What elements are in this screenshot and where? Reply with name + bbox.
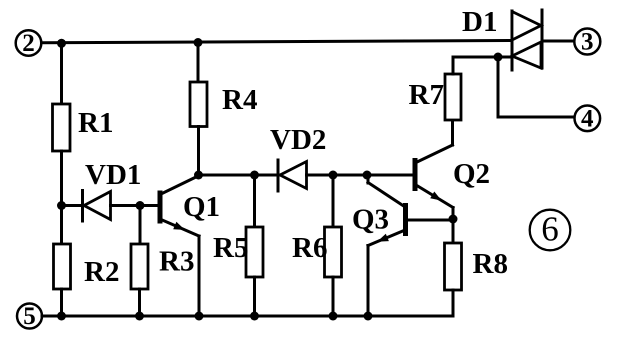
svg-text:R3: R3 — [159, 246, 194, 278]
wire Q2 emitter down — [452, 208, 455, 220]
node bottom bus / Q1 emitter — [195, 312, 204, 321]
svg-text:D1: D1 — [462, 6, 497, 38]
node bottom bus / R2 — [57, 312, 66, 321]
wire R7 top to D1 node — [453, 57, 511, 74]
figure number 6 — [530, 210, 571, 251]
node VD1 / R3 / Q1 base — [136, 201, 145, 210]
node mid rail / R5 — [250, 171, 259, 180]
node R7 / D1 / terminal4 — [494, 53, 503, 62]
wire D1 to terminal 3 — [543, 40, 575, 43]
node mid rail / R6 — [329, 171, 338, 180]
wire Q2 collector to R7 — [451, 120, 454, 145]
diode VD2 — [270, 124, 326, 191]
svg-text:R4: R4 — [222, 84, 257, 116]
wire node to R3 — [139, 206, 142, 245]
wire R6 top — [332, 175, 335, 227]
wire bus to R4 — [197, 43, 200, 83]
svg-text:6: 6 — [541, 210, 559, 249]
terminal 3 — [574, 29, 600, 56]
transistor Q3 — [352, 175, 406, 246]
svg-text:Q1: Q1 — [183, 191, 220, 223]
resistor R6 — [292, 227, 342, 277]
wire node to R8 — [452, 219, 455, 243]
svg-text:Q3: Q3 — [352, 204, 389, 236]
node bottom bus / R3 — [135, 312, 144, 321]
svg-text:VD1: VD1 — [85, 159, 141, 191]
wire R3 to bottom bus — [138, 289, 141, 316]
node Q2 emitter / Q3 base / R8 — [449, 215, 458, 224]
node mid rail / Q3 collector — [363, 171, 372, 180]
wire Q3 emitter to bottom bus — [367, 246, 370, 317]
resistor R1 — [53, 104, 114, 151]
node top bus / R1 — [57, 39, 66, 48]
resistor R3 — [131, 244, 194, 289]
svg-text:R7: R7 — [409, 79, 444, 111]
wire bus to R1 — [60, 43, 63, 104]
transistor Q2 — [415, 145, 490, 208]
wire node to R2 — [60, 206, 63, 245]
svg-text:R2: R2 — [84, 256, 119, 288]
svg-text:R8: R8 — [473, 248, 508, 280]
wire mid rail right segment — [307, 174, 413, 177]
node VD1 / left rail — [57, 201, 66, 210]
svg-text:3: 3 — [581, 29, 594, 56]
wire R5 top — [253, 175, 256, 227]
resistor R7 — [409, 74, 462, 120]
svg-text:R6: R6 — [292, 232, 327, 264]
svg-text:4: 4 — [581, 105, 594, 132]
svg-text:5: 5 — [23, 303, 36, 330]
node bottom bus / R5 — [250, 312, 259, 321]
resistor R2 — [54, 244, 120, 289]
resistor R8 — [445, 243, 508, 290]
wire R4 to mid rail — [197, 127, 200, 176]
svg-text:R5: R5 — [213, 232, 248, 264]
svg-text:Q2: Q2 — [453, 158, 490, 190]
wire bottom bus — [42, 290, 453, 316]
transistor Q1 — [160, 176, 220, 237]
terminal 4 — [575, 105, 601, 132]
wire top bus — [42, 41, 513, 43]
wire R2 to bottom bus — [60, 289, 63, 316]
wire mid rail left segment — [199, 174, 279, 177]
triac D1 — [462, 6, 542, 70]
wire R6 to bottom bus — [332, 277, 335, 316]
node top bus / R4 — [194, 38, 203, 47]
wire node to terminal 4 — [498, 57, 575, 117]
resistor R5 — [213, 227, 263, 277]
resistor R4 — [190, 82, 257, 127]
node bottom bus / Q3 emitter — [364, 312, 373, 321]
wire Q3 base to node — [408, 219, 453, 222]
terminal 2 — [16, 30, 42, 57]
wire R5 to bottom bus — [253, 277, 256, 316]
diode VD1 — [62, 159, 158, 221]
wire R1 to VD1 node — [60, 151, 63, 206]
terminal 5 — [17, 303, 42, 330]
svg-text:VD2: VD2 — [270, 124, 326, 156]
wire Q1 emitter to bottom bus — [198, 236, 201, 316]
svg-text:R1: R1 — [78, 107, 113, 139]
svg-text:2: 2 — [22, 30, 35, 57]
node bottom bus / R6 — [329, 312, 338, 321]
node mid rail / Q1 collector — [194, 171, 203, 180]
